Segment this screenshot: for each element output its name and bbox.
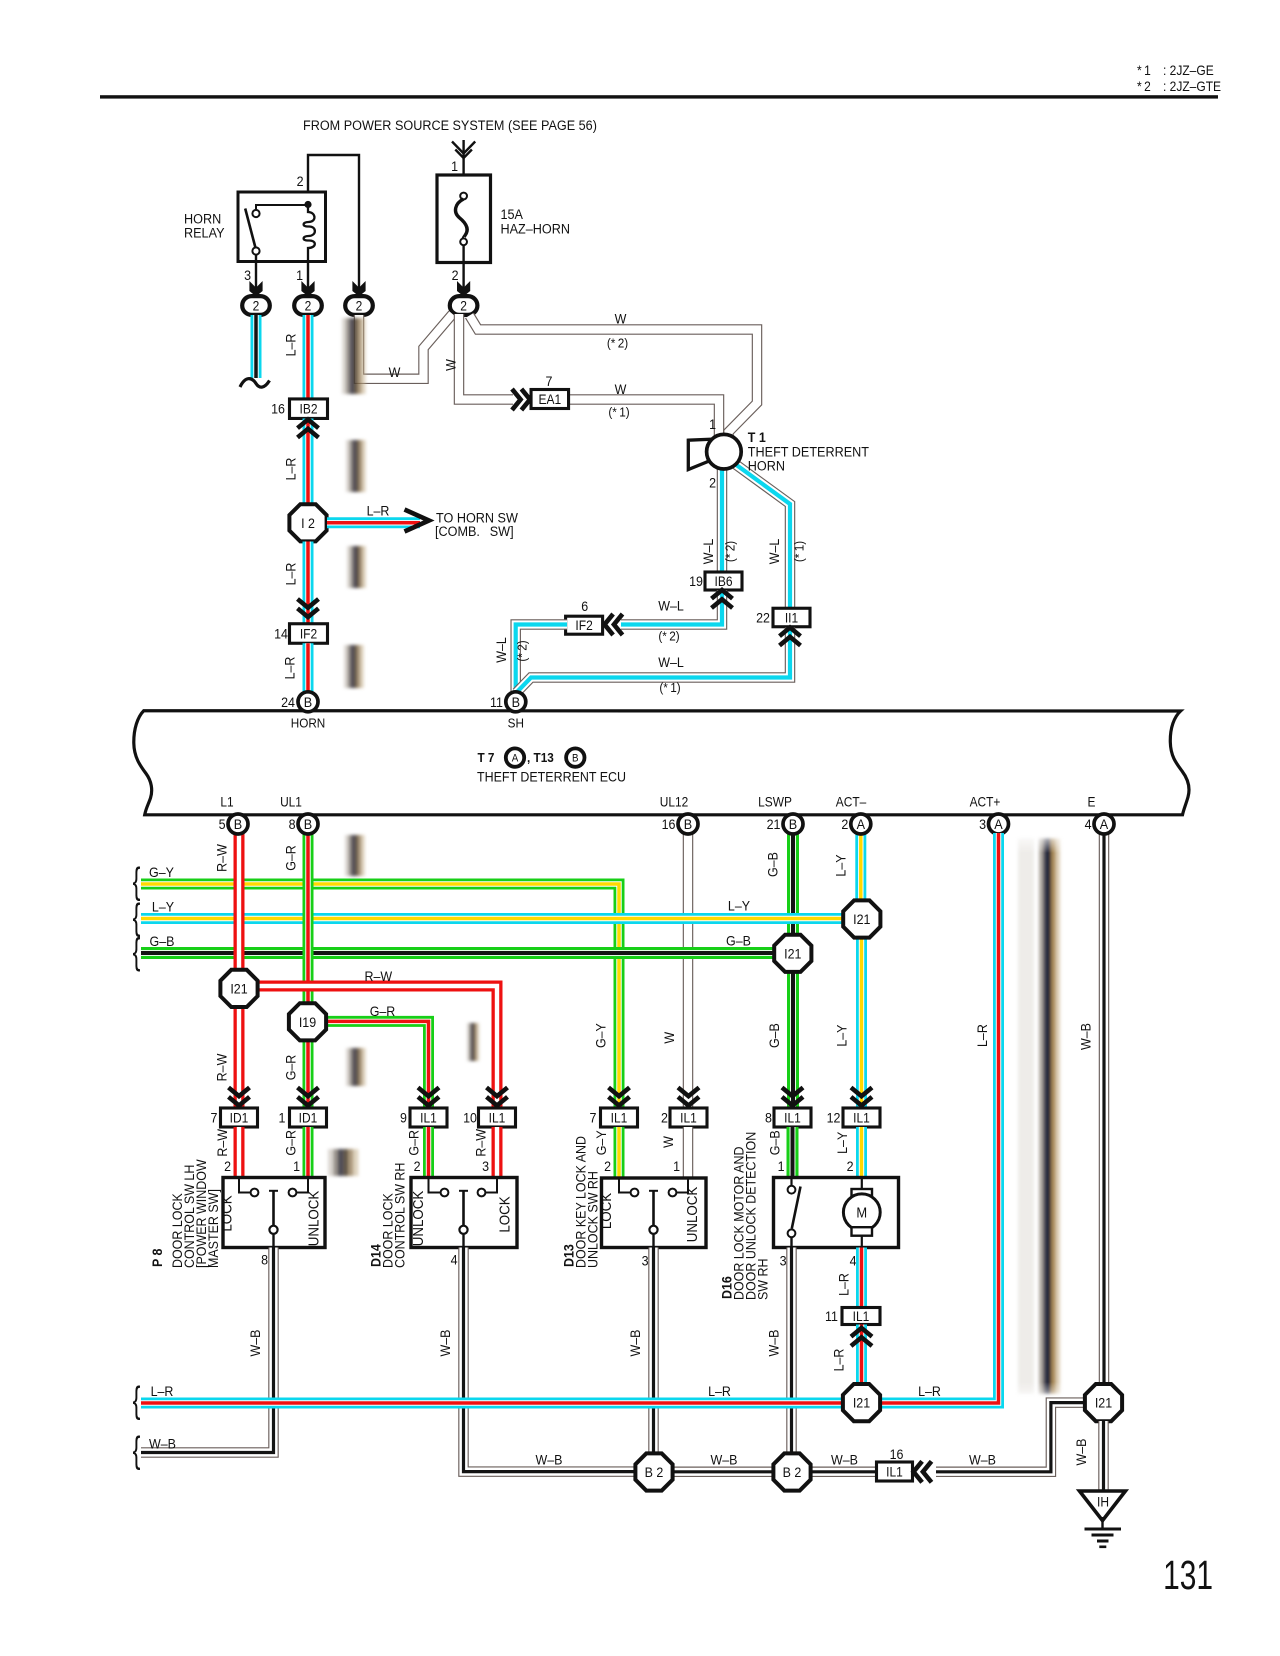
svg-text:UNLOCK: UNLOCK xyxy=(410,1190,427,1246)
large scan smudge column xyxy=(1018,838,1060,1394)
chevron above IL1 12 xyxy=(851,1088,872,1106)
svg-text:* 1: * 1 xyxy=(1137,62,1151,78)
svg-text:W–L: W–L xyxy=(658,654,684,670)
svg-text:G–Y: G–Y xyxy=(149,864,174,880)
svg-text:21: 21 xyxy=(767,816,781,832)
svg-text:G–B: G–B xyxy=(765,852,781,877)
wire W-B IL1 16 to I21 xyxy=(936,1403,1085,1472)
svg-text:2: 2 xyxy=(460,298,467,314)
svg-text:UL12: UL12 xyxy=(660,795,688,810)
svg-text:8: 8 xyxy=(261,1252,268,1268)
relay switch contact bottom xyxy=(252,247,259,254)
svg-text:E: E xyxy=(1088,795,1096,810)
connector 10 IL1 xyxy=(479,1108,516,1127)
svg-text:L–Y: L–Y xyxy=(152,899,174,915)
svg-text:B: B xyxy=(512,694,520,710)
svg-text:{: { xyxy=(133,1379,141,1421)
svg-text:T 1: T 1 xyxy=(748,429,766,445)
svg-text:P 8: P 8 xyxy=(149,1249,165,1267)
chevron left of IF2 xyxy=(605,614,623,635)
svg-text:24: 24 xyxy=(281,694,295,710)
svg-text:W: W xyxy=(615,381,627,397)
svg-text:L–R: L–R xyxy=(282,657,298,680)
wire R-W IL1 to D14 pin3 xyxy=(492,1127,503,1178)
svg-text:G–R: G–R xyxy=(406,1130,422,1156)
connector 2 xyxy=(345,296,373,315)
svg-text:SH: SH xyxy=(508,716,524,731)
svg-text:2: 2 xyxy=(604,1158,611,1174)
svg-text:[COMB. SW]: [COMB. SW] xyxy=(435,523,514,539)
svg-text:II1: II1 xyxy=(785,610,798,626)
svg-text:(* 2): (* 2) xyxy=(607,336,628,351)
svg-text:2: 2 xyxy=(253,298,260,314)
svg-text:2: 2 xyxy=(452,267,459,283)
L-B open end squiggle xyxy=(240,379,270,388)
svg-text:4: 4 xyxy=(1085,816,1092,832)
arrow to horn SW xyxy=(405,510,430,532)
wire W IL1 to D13 pin1 xyxy=(683,1127,694,1178)
svg-text:THEFT DETERRENT ECU: THEFT DETERRENT ECU xyxy=(477,769,626,785)
junction I19 on G-R xyxy=(289,1003,326,1040)
svg-text:W–B: W–B xyxy=(627,1329,643,1356)
wire G-B from ECU pin 21 LSWP xyxy=(787,833,799,936)
wire W from third connector to fuse connector xyxy=(359,314,453,379)
svg-text:1: 1 xyxy=(296,267,303,283)
svg-text:SW RH: SW RH xyxy=(755,1258,771,1300)
svg-text:G–Y: G–Y xyxy=(593,1130,609,1155)
svg-text:1: 1 xyxy=(451,158,458,174)
junction IB2 xyxy=(290,399,328,419)
svg-text:L–R: L–R xyxy=(283,563,299,586)
svg-text:(* 2): (* 2) xyxy=(723,541,738,562)
switch D13 door key lock and unlock SW RH box xyxy=(602,1178,707,1248)
door lock motor D16 box xyxy=(774,1178,899,1248)
wire relay pin3 xyxy=(255,255,257,296)
svg-text:B: B xyxy=(234,817,242,833)
svg-text:7: 7 xyxy=(211,1110,218,1126)
chevron above IL1 10 xyxy=(487,1088,508,1106)
svg-text:G–B: G–B xyxy=(150,933,175,949)
junction IL1 16 xyxy=(877,1462,913,1481)
wire W-L *1 II1 to ECU pin 11 xyxy=(517,628,791,693)
svg-text:FROM POWER SOURCE SYSTEM (SEE: FROM POWER SOURCE SYSTEM (SEE PAGE 56) xyxy=(303,117,597,133)
svg-text:5: 5 xyxy=(219,816,226,832)
junction IF2 6 xyxy=(566,616,603,634)
svg-text:IB2: IB2 xyxy=(299,401,317,417)
svg-text:I21: I21 xyxy=(853,1395,870,1411)
svg-text:T 7: T 7 xyxy=(478,750,495,765)
wire W-B D14 to B2 xyxy=(464,1248,638,1472)
svg-text:B: B xyxy=(572,753,579,765)
relay coil junction dot xyxy=(304,201,311,208)
wire W fuse connector to EA1 xyxy=(459,314,513,400)
ground symbol xyxy=(1101,1517,1103,1528)
svg-text:IL1: IL1 xyxy=(611,1110,628,1126)
ECU pin 24 HORN xyxy=(298,692,318,712)
svg-text:HORN: HORN xyxy=(748,458,785,474)
chevron below II1 xyxy=(780,628,801,646)
wire relay pin1 xyxy=(307,261,309,296)
svg-text:: 2JZ–GE: : 2JZ–GE xyxy=(1163,62,1214,78)
fuse element xyxy=(463,191,465,194)
connector 2 xyxy=(242,296,270,315)
wire G-R IL1 to D14 pin2 xyxy=(423,1127,434,1178)
ECU pin 11 SH xyxy=(506,692,526,712)
svg-text:14: 14 xyxy=(274,626,288,642)
svg-text:ACT–: ACT– xyxy=(836,795,867,810)
svg-text:1: 1 xyxy=(709,416,716,432)
relay coil xyxy=(304,205,315,262)
svg-text:UNLOCK SW RH: UNLOCK SW RH xyxy=(585,1171,601,1268)
theft deterrent ECU box T7/T13 xyxy=(134,711,1189,815)
wire L-R D16 pin4 to IL1 11 xyxy=(856,1248,867,1309)
svg-text:* 2: * 2 xyxy=(1137,78,1151,94)
svg-text:1: 1 xyxy=(778,1158,785,1174)
junction I21 before ground xyxy=(1085,1384,1122,1421)
svg-text:A: A xyxy=(512,753,519,765)
svg-text:7: 7 xyxy=(590,1110,597,1126)
svg-text:G–B: G–B xyxy=(726,933,751,949)
chevron right of IL1 16 xyxy=(914,1461,932,1482)
wire L-R I2 to IF2 xyxy=(303,542,314,624)
svg-text:B 2: B 2 xyxy=(645,1464,664,1480)
svg-text:L–R: L–R xyxy=(151,1383,174,1399)
theft deterrent horn T1 symbol xyxy=(688,439,711,469)
connector 2 xyxy=(450,296,478,315)
svg-text:IF2: IF2 xyxy=(300,626,317,642)
svg-text:EA1: EA1 xyxy=(538,391,561,407)
svg-text:W: W xyxy=(389,364,401,380)
svg-text:, T13: , T13 xyxy=(527,750,554,765)
svg-text:7: 7 xyxy=(546,373,553,389)
junction I21 on L-Y xyxy=(843,900,880,937)
horn relay box xyxy=(238,192,326,262)
svg-text:R–W: R–W xyxy=(214,844,230,872)
svg-text:W–B: W–B xyxy=(437,1329,453,1356)
junction IL1 11 xyxy=(842,1308,880,1325)
svg-text:G–R: G–R xyxy=(283,1055,299,1081)
wire fuse pin2 xyxy=(462,245,464,296)
chevron above ID1 7 xyxy=(229,1088,250,1106)
svg-text:L–Y: L–Y xyxy=(834,1132,850,1154)
svg-text:ID1: ID1 xyxy=(230,1110,249,1126)
svg-text:12: 12 xyxy=(827,1110,841,1126)
svg-text:2: 2 xyxy=(224,1158,231,1174)
chevron below IL1 11 xyxy=(851,1328,872,1346)
svg-text:3: 3 xyxy=(244,267,251,283)
junction I2 xyxy=(289,504,326,541)
svg-text:IL1: IL1 xyxy=(489,1110,506,1126)
svg-text:L–Y: L–Y xyxy=(833,854,849,876)
svg-text:G–R: G–R xyxy=(370,1004,396,1020)
svg-text:I21: I21 xyxy=(853,911,870,927)
svg-text:W–B: W–B xyxy=(149,1436,176,1452)
chevron above ID1 1 xyxy=(298,1088,319,1106)
fuse 15A HAZ-HORN box xyxy=(437,175,491,263)
chevron below IB2 xyxy=(298,420,319,438)
svg-text:16: 16 xyxy=(662,816,676,832)
svg-text:9: 9 xyxy=(400,1110,407,1126)
svg-text:B: B xyxy=(684,817,692,833)
bus wire G-B xyxy=(141,947,793,959)
svg-text:2: 2 xyxy=(709,475,716,491)
svg-text:IB6: IB6 xyxy=(714,573,732,589)
svg-text:1: 1 xyxy=(293,1158,300,1174)
svg-text:UNLOCK: UNLOCK xyxy=(684,1186,701,1242)
svg-text:L–Y: L–Y xyxy=(834,1024,850,1046)
connector arrow xyxy=(457,281,470,296)
wire G-R branch I19 to IL1 9 xyxy=(326,1021,429,1108)
svg-text:A: A xyxy=(994,817,1002,833)
connector arrow xyxy=(249,281,262,296)
svg-text:3: 3 xyxy=(642,1253,649,1269)
wire W *1 EA1 to horn xyxy=(568,400,719,438)
svg-text:1: 1 xyxy=(279,1110,286,1126)
svg-text:LSWP: LSWP xyxy=(758,795,792,810)
svg-text:{: { xyxy=(133,1429,141,1471)
svg-text:L1: L1 xyxy=(220,795,233,810)
svg-text:G–B: G–B xyxy=(767,1130,783,1155)
D16 detection switch xyxy=(790,1178,792,1186)
bus wire G-Y xyxy=(141,884,619,1108)
junction B2 right xyxy=(773,1453,810,1490)
svg-text:: 2JZ–GTE: : 2JZ–GTE xyxy=(1163,78,1221,94)
chevron below IB6 xyxy=(712,590,733,608)
svg-text:W–L: W–L xyxy=(700,539,716,565)
junction I21 on R-W xyxy=(220,970,257,1007)
chevron above IL1 2 xyxy=(678,1088,699,1106)
svg-text:L–R: L–R xyxy=(283,334,299,357)
svg-text:16: 16 xyxy=(890,1446,904,1462)
wire power feed to fuse xyxy=(462,140,464,192)
svg-text:I 2: I 2 xyxy=(301,515,315,531)
svg-text:A: A xyxy=(857,817,865,833)
svg-text:W–B: W–B xyxy=(766,1329,782,1356)
svg-text:15A: 15A xyxy=(501,206,524,222)
svg-text:G–R: G–R xyxy=(283,1130,299,1156)
svg-text:2: 2 xyxy=(356,298,363,314)
chevron above IF2 xyxy=(298,599,319,617)
svg-text:LOCK: LOCK xyxy=(598,1192,615,1229)
svg-text:IL1: IL1 xyxy=(420,1110,437,1126)
svg-text:LOCK: LOCK xyxy=(219,1195,236,1232)
chevron above IL1 7 xyxy=(609,1088,630,1106)
svg-text:3: 3 xyxy=(482,1158,489,1174)
svg-text:B: B xyxy=(789,817,797,833)
svg-text:IL1: IL1 xyxy=(853,1308,870,1324)
junction IF2 xyxy=(290,624,328,644)
svg-text:I21: I21 xyxy=(784,946,801,962)
svg-text:L–Y: L–Y xyxy=(728,898,750,914)
svg-text:3: 3 xyxy=(979,816,986,832)
svg-text:2: 2 xyxy=(414,1158,421,1174)
ground connector IH triangle xyxy=(1080,1491,1126,1521)
connector 9 IL1 xyxy=(410,1108,447,1127)
svg-text:B: B xyxy=(304,694,312,710)
svg-text:W–L: W–L xyxy=(493,637,509,663)
svg-text:W–L: W–L xyxy=(658,598,684,614)
svg-text:L–R: L–R xyxy=(367,503,390,519)
wire L-B from relay pin3 connector xyxy=(251,315,262,378)
svg-text:ACT+: ACT+ xyxy=(970,795,1001,810)
svg-text:1: 1 xyxy=(673,1158,680,1174)
wire W-L *2 IB6 to IF2 xyxy=(621,590,722,625)
top rule xyxy=(100,95,1218,98)
switch P8 door lock control SW LH box xyxy=(223,1178,325,1248)
svg-text:W–B: W–B xyxy=(1073,1438,1089,1465)
wire W-B I21 to ground IH xyxy=(1098,1421,1109,1491)
wire L-R from ECU pin 3 ACT+ and bottom bus xyxy=(141,833,999,1403)
svg-text:R–W: R–W xyxy=(473,1128,489,1156)
connector 12 IL1 xyxy=(843,1108,880,1127)
svg-text:MASTER SW]: MASTER SW] xyxy=(205,1189,221,1268)
connector 7 IL1 xyxy=(601,1108,638,1127)
junction II1 xyxy=(773,608,810,627)
wire W-B P8 to left edge xyxy=(141,1248,274,1453)
junction B2 left xyxy=(635,1453,672,1490)
svg-text:W–B: W–B xyxy=(535,1452,562,1468)
svg-text:L–R: L–R xyxy=(836,1273,852,1296)
svg-text:(* 1): (* 1) xyxy=(608,405,629,420)
svg-text:I21: I21 xyxy=(1095,1395,1112,1411)
relay switch contact top xyxy=(256,205,308,210)
svg-text:B: B xyxy=(304,817,312,833)
svg-text:(* 1): (* 1) xyxy=(659,680,680,695)
svg-text:IL1: IL1 xyxy=(784,1110,801,1126)
svg-text:2: 2 xyxy=(661,1110,668,1126)
svg-text:IL1: IL1 xyxy=(886,1464,903,1480)
wire G-R ID1 to P8 pin1 xyxy=(303,1127,314,1178)
svg-text:W–B: W–B xyxy=(1078,1023,1094,1050)
wire W-B D16 to B2 xyxy=(786,1248,797,1455)
svg-text:L–R: L–R xyxy=(708,1383,731,1399)
svg-text:IL1: IL1 xyxy=(680,1110,697,1126)
svg-text:L–R: L–R xyxy=(918,1383,941,1399)
wire R-W branch I21 to IL1 10 xyxy=(257,986,497,1108)
wire L-Y IL1 to D16 pin2 xyxy=(856,1127,867,1178)
chevron above IL1 8 xyxy=(782,1088,803,1106)
wire G-R from ECU pin 8 UL1 xyxy=(303,833,314,1004)
svg-text:IF2: IF2 xyxy=(575,617,592,633)
svg-text:M: M xyxy=(856,1205,867,1221)
svg-text:IH: IH xyxy=(1097,1494,1109,1510)
svg-text:HORN: HORN xyxy=(291,716,326,731)
svg-text:A: A xyxy=(1100,817,1108,833)
svg-text:W: W xyxy=(443,359,459,371)
connector 2 IL1 xyxy=(670,1108,707,1127)
svg-text:(* 2): (* 2) xyxy=(515,640,530,661)
svg-text:{: { xyxy=(133,930,141,972)
junction EA1 xyxy=(531,390,569,409)
wire W-B B2 to B2 xyxy=(672,1467,774,1478)
svg-text:W–B: W–B xyxy=(969,1452,996,1468)
wire W-L *2 horn to IB6 xyxy=(717,467,728,572)
svg-text:B 2: B 2 xyxy=(783,1464,802,1480)
wire G-B IL1 to D16 pin1 xyxy=(787,1127,799,1178)
svg-text:G–R: G–R xyxy=(283,845,299,871)
wire L-R IF2 to ECU pin 24 xyxy=(303,643,314,694)
switch D14 door lock control SW RH box xyxy=(411,1178,517,1248)
svg-text:W–B: W–B xyxy=(247,1329,263,1356)
chevron above IL1 9 xyxy=(418,1088,439,1106)
svg-text:UNLOCK: UNLOCK xyxy=(306,1190,323,1246)
wire W-B from ECU pin 4 E xyxy=(1099,833,1110,1385)
relay switch blade xyxy=(245,209,255,248)
svg-text:G–Y: G–Y xyxy=(593,1023,609,1048)
wire W-B B2 to IL1 16 xyxy=(810,1467,877,1478)
svg-text:G–B: G–B xyxy=(766,1023,782,1048)
wire W from ECU pin 16 UL12 xyxy=(683,833,694,1108)
junction I19 xyxy=(303,1039,314,1108)
svg-text:CONTROL SW RH: CONTROL SW RH xyxy=(392,1163,408,1268)
svg-text:L–R: L–R xyxy=(831,1349,847,1372)
svg-text:8: 8 xyxy=(289,816,296,832)
wire W-L *2 IF2 to ECU pin 11 xyxy=(516,625,567,694)
svg-text:RELAY: RELAY xyxy=(184,225,225,241)
scan smudges xyxy=(342,318,366,394)
wire L-R branch to horn switch xyxy=(327,517,420,528)
connector 1 ID1 xyxy=(290,1108,327,1127)
svg-text:3: 3 xyxy=(780,1253,787,1269)
wire W-L *1 horn to II1 xyxy=(731,461,790,607)
svg-text:6: 6 xyxy=(581,598,588,614)
chevron before EA1 xyxy=(512,389,530,410)
svg-text:W–L: W–L xyxy=(766,539,782,565)
svg-text:2: 2 xyxy=(847,1158,854,1174)
svg-text:2: 2 xyxy=(297,173,304,189)
svg-text:W: W xyxy=(660,1136,676,1148)
svg-text:11: 11 xyxy=(825,1308,838,1324)
svg-text:8: 8 xyxy=(765,1110,772,1126)
svg-text:W–B: W–B xyxy=(710,1452,737,1468)
svg-text:131: 131 xyxy=(1163,1552,1213,1598)
wire L-R IB2 to I2 xyxy=(303,419,314,505)
bus wire L-Y xyxy=(141,913,862,924)
svg-text:4: 4 xyxy=(451,1252,458,1268)
svg-text:R–W: R–W xyxy=(214,1053,230,1081)
svg-text:19: 19 xyxy=(689,573,703,589)
wire R-W ID1 to P8 pin2 xyxy=(234,1127,245,1178)
svg-text:W: W xyxy=(661,1031,677,1043)
svg-text:LOCK: LOCK xyxy=(497,1196,514,1233)
svg-text:L–R: L–R xyxy=(974,1024,990,1047)
connector 2 xyxy=(294,296,322,315)
junction I21 on L-R bottom xyxy=(843,1384,880,1421)
svg-text:IL1: IL1 xyxy=(853,1110,870,1126)
svg-text:2: 2 xyxy=(305,298,312,314)
connector 8 IL1 xyxy=(774,1108,811,1127)
wire W *2 fuse connector to horn xyxy=(470,316,758,438)
svg-text:10: 10 xyxy=(463,1110,477,1126)
wire L-R IL1 11 to I21 xyxy=(856,1325,867,1386)
junction IB6 xyxy=(705,572,742,590)
connector arrow xyxy=(352,281,365,296)
svg-text:22: 22 xyxy=(756,610,770,626)
svg-text:I21: I21 xyxy=(230,981,247,997)
connector arrow xyxy=(301,281,314,296)
svg-text:2: 2 xyxy=(841,816,848,832)
svg-text:L–R: L–R xyxy=(283,458,299,481)
connector 7 ID1 xyxy=(221,1108,258,1127)
svg-text:(* 2): (* 2) xyxy=(658,629,679,644)
wire G-Y IL1 to D13 pin2 xyxy=(614,1127,625,1178)
svg-text:W: W xyxy=(615,311,627,327)
svg-text:I19: I19 xyxy=(299,1014,316,1030)
svg-text:11: 11 xyxy=(490,694,503,710)
svg-text:16: 16 xyxy=(271,401,285,417)
svg-text:R–W: R–W xyxy=(214,1128,230,1156)
wire L-Y from ECU pin 2 ACT- xyxy=(855,833,866,902)
